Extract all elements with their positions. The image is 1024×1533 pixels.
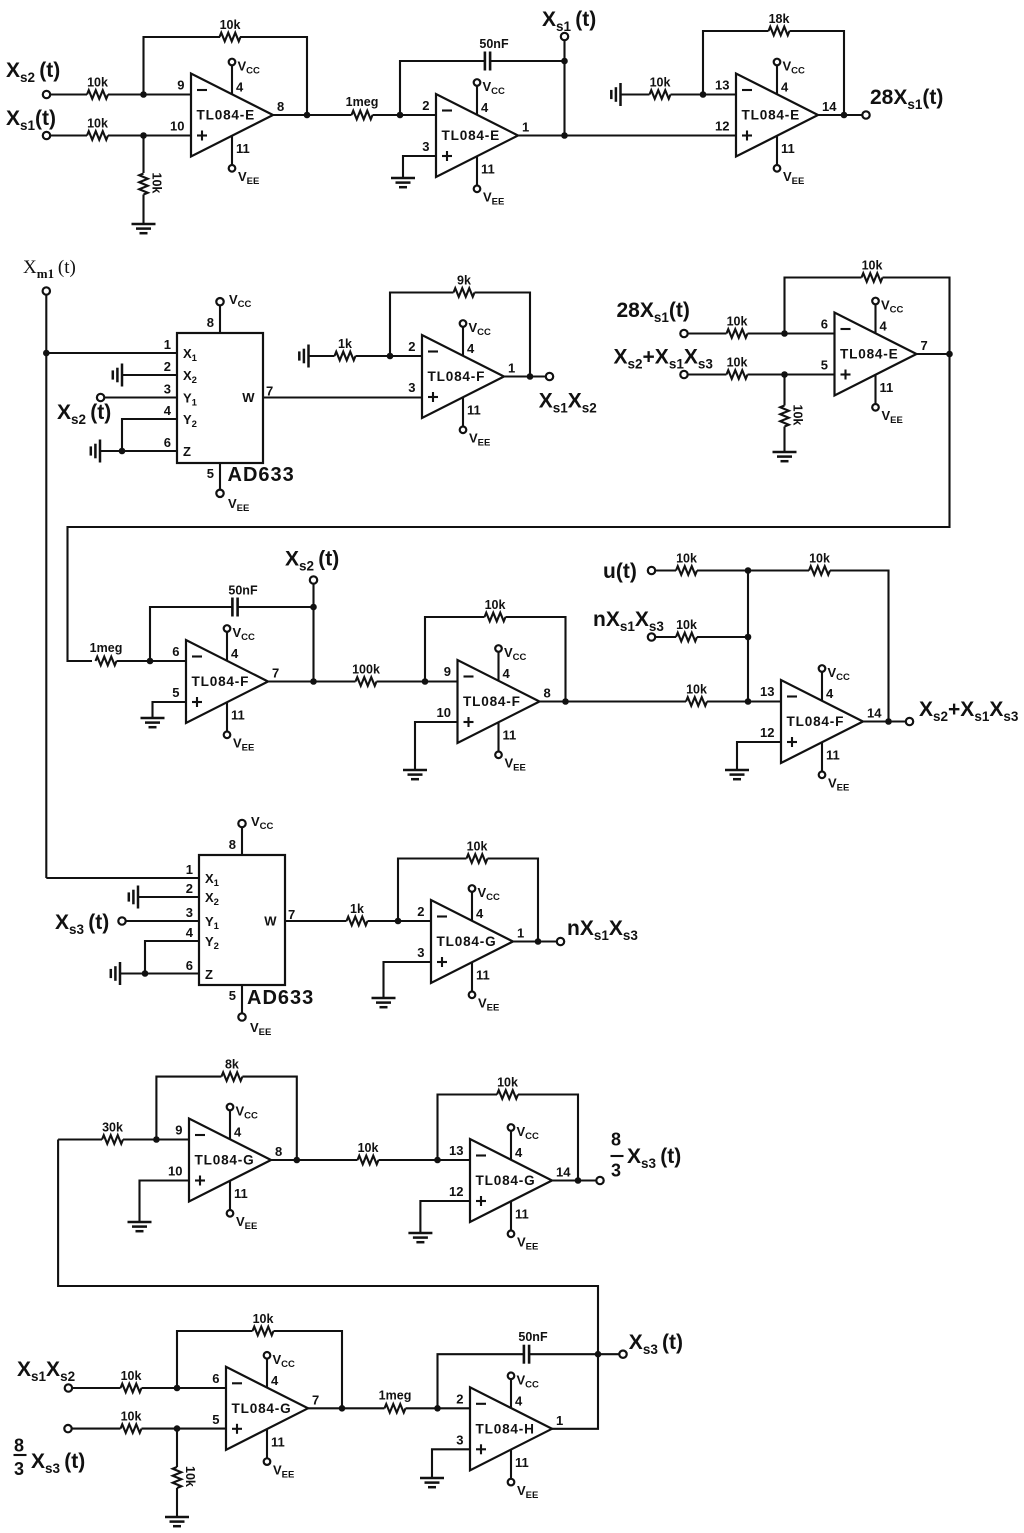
wire U12 output to R31 — [308, 1407, 385, 1409]
resistor R2 10k — [87, 131, 108, 140]
node U12 plus junction — [174, 1425, 181, 1432]
svg-text:VEE: VEE — [273, 1462, 294, 1480]
node summing mid — [745, 634, 752, 641]
svg-text:VCC: VCC — [881, 298, 904, 316]
svg-text:4: 4 — [476, 906, 484, 921]
resistor R5 1meg — [352, 111, 373, 120]
ground — [403, 770, 427, 779]
wire R1 to U1 pin9 — [108, 93, 191, 95]
node U10 minus junction — [153, 1136, 160, 1143]
node U5 minus junction — [781, 330, 788, 337]
svg-text:Xs1 (t): Xs1 (t) — [542, 8, 596, 34]
svg-text:Z: Z — [183, 444, 191, 459]
wire cap feedback left — [438, 1354, 525, 1408]
wire U12 feedback right — [274, 1331, 343, 1408]
node U4 minus junction — [387, 353, 394, 360]
U7 Vee pin 11 stub — [495, 722, 526, 774]
svg-text:10k: 10k — [485, 598, 506, 612]
capacitor C2 50nF — [231, 598, 234, 617]
svg-text:6: 6 — [186, 958, 193, 973]
resistor R29 10k — [121, 1424, 142, 1433]
svg-text:4: 4 — [164, 403, 172, 418]
wire U9 output — [513, 940, 557, 942]
ground — [408, 1233, 432, 1242]
wire Y1 — [104, 396, 177, 398]
svg-text:11: 11 — [231, 708, 245, 723]
node U3 minus junction — [700, 91, 707, 98]
wire Y2 to Z tie — [145, 941, 199, 974]
svg-text:11: 11 — [476, 968, 490, 983]
svg-text:11: 11 — [234, 1186, 248, 1201]
terminal Xs1 output — [561, 33, 568, 40]
wire U7 output to R17 — [540, 700, 687, 702]
svg-text:TL084-E: TL084-E — [742, 108, 800, 123]
node U12 minus junction — [174, 1385, 181, 1392]
svg-text:10k: 10k — [809, 552, 830, 566]
svg-text:Y1: Y1 — [183, 391, 198, 409]
svg-text:5: 5 — [172, 685, 179, 700]
resistor R27 10k — [121, 1384, 142, 1393]
wire M1 W output to U4 pin3 — [263, 396, 422, 398]
svg-text:VEE: VEE — [483, 190, 504, 208]
op-amp U8 TL084-F — [760, 680, 882, 763]
svg-text:10: 10 — [168, 1164, 182, 1179]
svg-text:8: 8 — [207, 315, 214, 330]
U7 Vcc pin 4 stub — [495, 645, 526, 681]
U9 Vcc pin 4 stub — [469, 885, 500, 921]
svg-text:W: W — [264, 914, 277, 929]
svg-text:1: 1 — [186, 862, 193, 877]
svg-text:3: 3 — [611, 1161, 621, 1181]
ground — [141, 718, 165, 727]
node U10 output — [294, 1157, 301, 1164]
svg-text:VCC: VCC — [238, 59, 261, 77]
resistor R7 18k feedback — [769, 27, 790, 36]
terminal Xs3 output — [619, 1351, 626, 1358]
node cap junction — [561, 58, 568, 65]
svg-text:TL084-G: TL084-G — [437, 934, 497, 949]
svg-text:Xs2 (t): Xs2 (t) — [57, 401, 111, 427]
svg-text:4: 4 — [781, 80, 789, 95]
wire to Xs3 terminal — [598, 1353, 620, 1355]
node U11 minus junction — [434, 1157, 441, 1164]
svg-text:4: 4 — [515, 1393, 523, 1408]
wire U4 feedback right — [475, 293, 531, 377]
svg-text:11: 11 — [503, 728, 517, 743]
terminal 8/3 Xs3 output — [596, 1177, 603, 1184]
wire cap feedback right — [238, 606, 314, 608]
svg-text:10k: 10k — [358, 1141, 379, 1155]
svg-text:4: 4 — [467, 341, 475, 356]
svg-text:VEE: VEE — [228, 496, 249, 514]
ground U4 input — [299, 345, 308, 368]
svg-text:VCC: VCC — [478, 885, 501, 903]
U11 Vee pin 11 stub — [508, 1201, 539, 1253]
wire to R29 — [72, 1428, 121, 1430]
op-amp U10 TL084-G — [168, 1119, 282, 1202]
svg-text:12: 12 — [449, 1184, 463, 1199]
svg-text:11: 11 — [515, 1455, 529, 1470]
op-amp U12 TL084-G — [212, 1367, 319, 1450]
wire R18 to node — [697, 569, 809, 571]
svg-text:11: 11 — [515, 1207, 529, 1222]
wire R30 to ground — [176, 1488, 178, 1517]
svg-text:VCC: VCC — [273, 1352, 296, 1370]
node U8 minus junction — [745, 698, 752, 705]
wire U4 output — [504, 375, 546, 377]
node U11 output — [575, 1177, 582, 1184]
node U9 output — [535, 938, 542, 945]
label 8/3 Xs3(t) input — [14, 1436, 86, 1480]
svg-text:VCC: VCC — [251, 814, 274, 832]
svg-text:VEE: VEE — [233, 736, 254, 754]
node U5 plus junction — [781, 371, 788, 378]
op-amp U13 TL084-H — [456, 1387, 563, 1470]
node U1 output — [304, 112, 311, 119]
wire U8 output — [863, 720, 906, 722]
U8 Vee pin 11 stub — [819, 742, 850, 794]
svg-text:10k: 10k — [497, 1076, 518, 1090]
svg-text:Xs2+Xs1Xs3: Xs2+Xs1Xs3 — [919, 698, 1019, 724]
svg-text:Xs3 (t): Xs3 (t) — [31, 1450, 85, 1476]
wire Xs1 node vertical — [563, 40, 565, 136]
wire Y2 to Z tie — [122, 419, 177, 451]
svg-text:VCC: VCC — [233, 625, 256, 643]
svg-text:X2: X2 — [183, 368, 197, 386]
svg-text:18k: 18k — [769, 12, 790, 26]
wire cap feedback right — [529, 1353, 598, 1355]
wire Z ground — [120, 972, 199, 974]
node U8 output — [885, 718, 892, 725]
svg-text:13: 13 — [449, 1143, 463, 1158]
svg-text:7: 7 — [266, 384, 273, 399]
svg-text:8: 8 — [14, 1436, 24, 1456]
svg-text:7: 7 — [272, 666, 279, 681]
wire Xs2 node vertical — [312, 584, 314, 682]
wire X2 ground — [138, 896, 199, 898]
resistor R6 10k — [650, 90, 671, 99]
svg-text:10k: 10k — [676, 552, 697, 566]
svg-text:50nF: 50nF — [479, 37, 509, 51]
ground — [128, 1222, 152, 1231]
wire U9 pin3 to ground — [384, 962, 432, 998]
node U9 minus junction — [395, 918, 402, 925]
U13 Vee pin 11 stub — [508, 1449, 539, 1501]
svg-text:TL084-F: TL084-F — [787, 714, 845, 729]
svg-text:4: 4 — [236, 80, 244, 95]
svg-text:W: W — [242, 390, 255, 405]
svg-text:VEE: VEE — [783, 169, 804, 187]
wire U6 pin5 to ground — [153, 702, 187, 718]
svg-text:TL084-E: TL084-E — [840, 347, 898, 362]
wire Z ground — [100, 450, 177, 452]
svg-text:3: 3 — [456, 1432, 463, 1447]
node U1 minus junction — [140, 91, 147, 98]
wire U3 feedback left — [703, 31, 769, 95]
svg-text:8: 8 — [275, 1144, 282, 1159]
svg-text:10k: 10k — [150, 173, 164, 194]
svg-text:10k: 10k — [467, 840, 488, 854]
terminal u(t) — [648, 567, 655, 574]
svg-text:12: 12 — [760, 725, 774, 740]
svg-text:4: 4 — [503, 666, 511, 681]
U6 Vee pin 11 stub — [224, 702, 255, 754]
wire summing vertical — [747, 571, 749, 702]
resistor R19 10k feedback — [809, 566, 830, 575]
resistor R16 10k feedback — [485, 613, 506, 622]
svg-text:30k: 30k — [102, 1121, 123, 1135]
op-amp U7 TL084-F — [437, 660, 551, 743]
svg-text:50nF: 50nF — [228, 584, 258, 598]
svg-text:9: 9 — [177, 78, 184, 93]
svg-text:Xs3 (t): Xs3 (t) — [629, 1331, 683, 1357]
svg-text:1meg: 1meg — [90, 641, 123, 655]
label 8/3 Xs3(t) output — [611, 1130, 682, 1181]
svg-text:VCC: VCC — [469, 320, 492, 338]
svg-text:1meg: 1meg — [379, 1388, 412, 1402]
svg-text:TL084-E: TL084-E — [442, 128, 500, 143]
U12 Vee pin 11 stub — [264, 1429, 295, 1481]
svg-text:50nF: 50nF — [518, 1330, 548, 1344]
terminal nXs1Xs3 — [648, 633, 655, 640]
resistor R12 10k to ground — [780, 406, 789, 427]
svg-text:Xs2 (t): Xs2 (t) — [285, 548, 339, 574]
op-amp U4 TL084-F — [408, 335, 515, 418]
svg-text:8: 8 — [611, 1130, 621, 1150]
wire R3 to ground — [142, 195, 144, 225]
wire R19 feedback right — [830, 571, 889, 722]
svg-text:VEE: VEE — [238, 169, 259, 187]
svg-text:3: 3 — [422, 139, 429, 154]
wire R23 to U10 pin9 — [123, 1138, 189, 1140]
resistor R18 10k — [676, 566, 697, 575]
svg-text:Xs3 (t): Xs3 (t) — [627, 1145, 681, 1171]
svg-text:Xs1Xs2: Xs1Xs2 — [539, 390, 597, 416]
svg-text:TL084-G: TL084-G — [195, 1153, 255, 1168]
wire U13 pin3 to ground — [432, 1449, 470, 1478]
svg-text:5: 5 — [821, 358, 828, 373]
svg-text:4: 4 — [234, 1125, 242, 1140]
resistor R23 30k — [102, 1135, 123, 1144]
op-amp U6 TL084-F — [172, 640, 279, 723]
resistor R25 10k — [358, 1156, 379, 1165]
svg-text:11: 11 — [271, 1434, 285, 1449]
wire R5 to U2 pin2 — [373, 114, 437, 116]
svg-text:2: 2 — [186, 881, 193, 896]
wire R31 to U13 pin2 — [406, 1407, 471, 1409]
wire U10 feedback left — [156, 1077, 221, 1140]
wire U6 output to R15 — [268, 680, 356, 682]
wire U11 feedback right — [518, 1095, 578, 1181]
U8 Vcc pin 4 stub — [819, 665, 850, 701]
svg-text:VEE: VEE — [882, 408, 903, 426]
op-amp U2 TL084-E — [422, 94, 529, 177]
wire U9 feedback right — [488, 859, 539, 942]
ground — [372, 998, 396, 1007]
svg-text:VEE: VEE — [478, 996, 499, 1014]
U11 Vcc pin 4 stub — [508, 1124, 539, 1160]
wire Xm1 vertical bus — [45, 295, 47, 879]
U9 Vee pin 11 stub — [469, 962, 500, 1014]
wire U4 feedback left — [390, 293, 454, 357]
wire U12 feedback left — [177, 1331, 253, 1388]
svg-text:AD633: AD633 — [247, 987, 314, 1009]
resistor R11 10k — [727, 370, 748, 379]
svg-text:9: 9 — [444, 664, 451, 679]
wire ground to R8 — [309, 355, 335, 357]
terminal nXs1Xs3 output — [557, 938, 564, 945]
wire Y1 — [126, 920, 200, 922]
U3 Vcc pin 4 stub — [774, 59, 805, 95]
U1 Vcc pin 4 stub — [229, 59, 260, 95]
U10 Vcc pin 4 stub — [227, 1104, 258, 1140]
wire U10 pin10 to ground — [140, 1181, 190, 1223]
svg-text:10k: 10k — [650, 76, 671, 90]
svg-text:10k: 10k — [791, 405, 805, 426]
svg-text:TL084-G: TL084-G — [232, 1401, 292, 1416]
op-amp U3 TL084-E — [715, 74, 837, 157]
svg-text:28Xs1(t): 28Xs1(t) — [617, 299, 690, 325]
svg-text:2: 2 — [408, 339, 415, 354]
svg-text:1: 1 — [556, 1413, 563, 1428]
wire U3 output — [818, 114, 863, 116]
svg-text:6: 6 — [821, 317, 828, 332]
ground — [132, 224, 156, 233]
capacitor C3 50nF — [523, 1345, 526, 1364]
svg-text:10k: 10k — [87, 76, 108, 90]
wire cap feedback left — [150, 607, 232, 661]
svg-text:5: 5 — [229, 988, 236, 1003]
ground — [391, 178, 415, 187]
resistor R1 10k — [87, 90, 108, 99]
resistor R13 10k feedback — [862, 273, 883, 282]
svg-text:1: 1 — [508, 361, 515, 376]
svg-text:1meg: 1meg — [346, 95, 379, 109]
svg-text:10k: 10k — [87, 117, 108, 131]
terminal Xs2 Y1 — [97, 394, 104, 401]
op-amp U5 TL084-E — [821, 313, 928, 396]
node integrator input — [397, 112, 404, 119]
svg-text:TL084-H: TL084-H — [476, 1421, 535, 1436]
wire R27 to U12 pin6 — [142, 1387, 227, 1389]
U2 Vee pin 11 stub — [474, 156, 505, 208]
svg-text:Y1: Y1 — [205, 914, 220, 932]
M2 Vee pin 5 stub — [229, 985, 272, 1038]
node U13 minus junction — [434, 1405, 441, 1412]
U5 Vee pin 11 stub — [872, 375, 903, 427]
svg-text:14: 14 — [822, 99, 837, 114]
node cap junction — [310, 604, 317, 611]
svg-text:4: 4 — [186, 925, 194, 940]
svg-text:VEE: VEE — [250, 1020, 271, 1038]
svg-text:3: 3 — [408, 380, 415, 395]
svg-text:9: 9 — [175, 1123, 182, 1138]
wire to M1 X1 — [46, 352, 177, 354]
wire U1 feedback left — [144, 37, 221, 95]
M1 Vee pin 5 stub — [207, 463, 250, 514]
svg-text:10k: 10k — [727, 315, 748, 329]
svg-text:10k: 10k — [121, 1410, 142, 1424]
svg-text:2: 2 — [422, 98, 429, 113]
svg-text:Xs2 (t): Xs2 (t) — [6, 59, 60, 85]
wire U7 feedback right — [506, 617, 566, 702]
resistor R30 10k to ground — [173, 1467, 182, 1488]
wire to R11 — [688, 373, 727, 375]
capacitor C1 50nF — [484, 52, 487, 71]
op-amp U9 TL084-G — [417, 900, 524, 983]
svg-text:6: 6 — [212, 1371, 219, 1386]
U1 Vee pin 11 stub — [229, 136, 260, 188]
svg-text:9k: 9k — [457, 274, 471, 288]
svg-text:8: 8 — [229, 837, 236, 852]
wire U2 pin3 to ground — [403, 156, 436, 178]
svg-text:10: 10 — [170, 119, 184, 134]
svg-text:4: 4 — [826, 686, 834, 701]
svg-text:4: 4 — [880, 319, 888, 334]
svg-text:5: 5 — [212, 1412, 219, 1427]
svg-text:8k: 8k — [225, 1058, 239, 1072]
resistor R4 10k feedback — [220, 33, 241, 42]
terminal Xs3 Y1 — [118, 917, 125, 924]
resistor R17 10k — [686, 697, 707, 706]
U6 Vcc pin 4 stub — [224, 625, 255, 661]
wire U1 output — [273, 114, 352, 116]
wire U3 feedback right — [790, 31, 845, 115]
wire cap feedback left — [400, 61, 485, 115]
svg-text:4: 4 — [271, 1373, 279, 1388]
svg-text:8: 8 — [544, 686, 551, 701]
wire U11 output — [552, 1179, 597, 1181]
wire U7 pin10 to ground — [415, 722, 458, 770]
svg-text:28Xs1(t): 28Xs1(t) — [870, 86, 943, 112]
svg-text:1: 1 — [522, 120, 529, 135]
wire Xs3 loop to R23 — [58, 1138, 102, 1140]
svg-text:VCC: VCC — [504, 645, 527, 663]
svg-text:TL084-E: TL084-E — [197, 108, 255, 123]
svg-text:VEE: VEE — [517, 1235, 538, 1253]
resistor R22 10k feedback — [467, 854, 488, 863]
resistor R8 1k — [335, 352, 356, 361]
svg-text:Y2: Y2 — [183, 412, 197, 430]
wire u(t) to R18 — [655, 569, 676, 571]
resistor R31 1meg — [385, 1404, 406, 1413]
resistor R20 10k — [676, 633, 697, 642]
svg-text:7: 7 — [288, 907, 295, 922]
ground M2 X2 — [129, 886, 138, 909]
svg-text:VCC: VCC — [229, 292, 252, 310]
svg-text:2: 2 — [417, 904, 424, 919]
op-amp U1 TL084-E — [170, 74, 284, 157]
svg-text:VEE: VEE — [505, 756, 526, 774]
svg-text:nXs1Xs3: nXs1Xs3 — [567, 917, 638, 943]
resistor R21 1k — [347, 917, 368, 926]
U4 Vee pin 11 stub — [460, 397, 491, 449]
svg-text:11: 11 — [236, 141, 250, 156]
node M1 X1 tap — [43, 350, 50, 357]
wire to R20 — [655, 636, 676, 638]
svg-text:AD633: AD633 — [228, 464, 295, 486]
svg-text:1k: 1k — [350, 902, 364, 916]
terminal Xs2 — [43, 91, 50, 98]
multiplier M1 AD633 — [164, 333, 273, 463]
node Xs3 output — [595, 1351, 602, 1358]
wire junction to R3 — [142, 136, 144, 174]
terminal Xs2 output — [310, 576, 317, 583]
wire U10 output to R25 — [271, 1159, 358, 1161]
svg-text:12: 12 — [715, 119, 729, 134]
wire R14 to U6 pin6 — [117, 660, 187, 662]
resistor R28 10k feedback — [253, 1327, 274, 1336]
